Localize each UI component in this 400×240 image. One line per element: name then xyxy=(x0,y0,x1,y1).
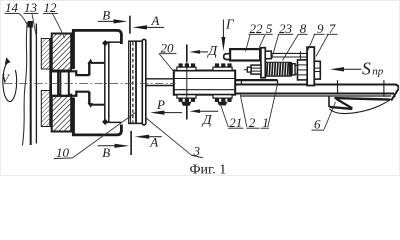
section Д top xyxy=(189,50,200,54)
drum top edge xyxy=(104,41,121,43)
drum bottom edge xyxy=(104,121,121,123)
pin rod lines xyxy=(271,52,307,54)
stand plate (part 2) xyxy=(261,48,265,78)
knife bracket (part 6) xyxy=(328,96,330,107)
drum left wall (disc 10) xyxy=(104,42,106,122)
svg-text:5: 5 xyxy=(266,21,273,36)
rotation arrowhead xyxy=(5,57,11,64)
lower bearing hook xyxy=(88,92,90,105)
threaded rod left of stand xyxy=(251,65,261,74)
svg-text:P: P xyxy=(156,97,165,112)
svg-text:Д: Д xyxy=(201,113,213,128)
hidden dashed line xyxy=(132,42,134,123)
end bracket plate (part 7) xyxy=(307,47,314,85)
hub column edge xyxy=(49,39,51,127)
knife back diagonal xyxy=(336,99,352,108)
threaded adjuster rod (part 8/9) xyxy=(295,65,307,74)
svg-text:S: S xyxy=(362,59,371,79)
svg-text:пр: пр xyxy=(372,65,384,77)
bar tick 2 xyxy=(383,80,385,97)
svg-text:6: 6 xyxy=(314,117,321,132)
spring end washer xyxy=(289,62,292,77)
svg-text:7: 7 xyxy=(329,21,336,36)
svg-text:21: 21 xyxy=(229,115,242,130)
svg-text:B: B xyxy=(102,8,110,23)
arrow S pr xyxy=(344,68,362,70)
housing cover bottom edge xyxy=(72,125,121,135)
hub block 12 lower (light hatch) xyxy=(41,91,50,127)
plate 13 (disc) xyxy=(28,21,33,28)
svg-text:2: 2 xyxy=(249,115,256,130)
upper bearing hook xyxy=(88,62,90,75)
junction dot bottom xyxy=(102,119,108,125)
latch pin nose xyxy=(224,54,230,60)
housing cover left wall xyxy=(72,29,75,69)
svg-text:10: 10 xyxy=(56,145,70,160)
flange block upper (hatched) xyxy=(52,34,71,71)
svg-text:12: 12 xyxy=(44,1,58,15)
svg-text:A: A xyxy=(151,13,160,28)
latch cylinder 22 xyxy=(230,49,260,60)
spring coils xyxy=(267,63,289,76)
break (wavy) line xyxy=(22,22,27,146)
svg-text:14: 14 xyxy=(5,1,19,15)
bolt strip top left xyxy=(177,67,196,70)
knife top edge xyxy=(335,98,391,100)
flange block lower (hatched) xyxy=(52,95,71,132)
knife bottom stroke xyxy=(330,107,353,109)
hub tube bottom edge xyxy=(51,92,89,96)
bolt strip bottom left xyxy=(177,95,196,98)
left bushing on bracket xyxy=(298,60,308,80)
hub tube top edge xyxy=(51,71,89,75)
hub cells xyxy=(51,71,58,96)
housing cover top edge xyxy=(72,30,121,44)
centerline of shaft axis xyxy=(4,83,176,85)
knife thin outline xyxy=(330,96,396,114)
bar tick 1 xyxy=(337,80,339,94)
svg-text:Г: Г xyxy=(225,17,235,32)
latch arrow Г xyxy=(222,20,224,40)
section Д bottom xyxy=(189,109,200,113)
rotation arrow V (ellipse arc) xyxy=(3,62,17,102)
svg-text:1: 1 xyxy=(262,115,269,130)
svg-text:23: 23 xyxy=(279,21,293,36)
drum right wall (part 3) xyxy=(142,39,146,125)
svg-text:Д: Д xyxy=(206,44,218,59)
spring (part 23) rails xyxy=(265,61,290,63)
svg-text:B: B xyxy=(102,145,110,160)
svg-text:8: 8 xyxy=(300,21,307,36)
shaft to clamp xyxy=(146,78,174,80)
drum right rim lines xyxy=(128,42,130,123)
base strip on bar xyxy=(235,79,277,81)
svg-text:13: 13 xyxy=(24,1,38,15)
right nut on bracket xyxy=(314,61,320,79)
hub block 12 upper (light hatch) xyxy=(41,39,50,70)
svg-text:9: 9 xyxy=(317,21,324,36)
junction dot top xyxy=(102,40,108,46)
bolt strip top right xyxy=(213,67,232,70)
drum rim top/bottom edges xyxy=(128,40,143,42)
svg-text:22: 22 xyxy=(250,21,264,36)
long bar (part 1) xyxy=(235,85,399,101)
svg-text:Фиг. 1: Фиг. 1 xyxy=(190,163,227,176)
bolt strip bottom right xyxy=(213,95,232,98)
section line Д-Д vertical xyxy=(186,45,188,120)
rod guide block xyxy=(265,51,271,59)
clamp body 20 xyxy=(174,71,235,95)
